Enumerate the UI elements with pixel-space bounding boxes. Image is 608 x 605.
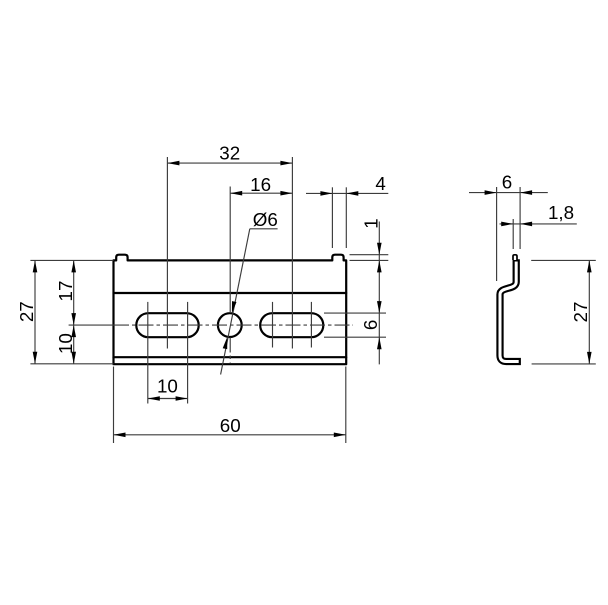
right slot arc centerlines	[272, 302, 274, 348]
svg-text:6: 6	[360, 320, 381, 330]
svg-text:1: 1	[361, 218, 382, 228]
side dim 1,8	[512, 219, 514, 249]
svg-text:16: 16	[250, 174, 271, 195]
dim 10 bottom	[148, 398, 188, 400]
svg-text:27: 27	[570, 302, 591, 323]
svg-text:Ø6: Ø6	[253, 209, 278, 230]
vertical centerline circle	[229, 187, 231, 314]
plate outline with corner tabs	[114, 255, 347, 365]
vertical centerline right slot	[291, 157, 293, 349]
svg-text:6: 6	[502, 172, 512, 193]
svg-text:27: 27	[16, 301, 37, 322]
side dim 6	[496, 187, 498, 281]
upper bend line	[114, 292, 347, 294]
side profile sheet	[500, 259, 521, 361]
svg-text:17: 17	[55, 281, 76, 302]
dim 4	[331, 187, 333, 248]
dim 1 + dim 6 dimension line	[378, 222, 380, 365]
dim 60	[113, 367, 115, 444]
hole circle	[218, 313, 242, 337]
svg-text:10: 10	[55, 333, 76, 354]
leader O6	[250, 228, 278, 230]
svg-text:1,8: 1,8	[548, 202, 574, 223]
dim 1 extension lines	[350, 254, 389, 256]
dim 32	[167, 162, 292, 164]
side dim 27	[531, 259, 596, 261]
left slot	[136, 313, 198, 337]
dim 6 (slot height)	[324, 312, 386, 314]
svg-text:4: 4	[375, 173, 385, 194]
svg-text:60: 60	[220, 415, 241, 436]
right slot	[260, 313, 323, 337]
side nub	[513, 255, 517, 260]
dim 16	[230, 192, 292, 194]
left slot arc centerlines	[147, 302, 149, 404]
lower bend line	[114, 356, 347, 358]
left dims 27 17 10	[30, 259, 113, 261]
horizontal centerline	[69, 324, 114, 326]
svg-text:10: 10	[157, 376, 178, 397]
vertical centerline left slot	[166, 157, 168, 349]
svg-text:32: 32	[219, 142, 240, 163]
